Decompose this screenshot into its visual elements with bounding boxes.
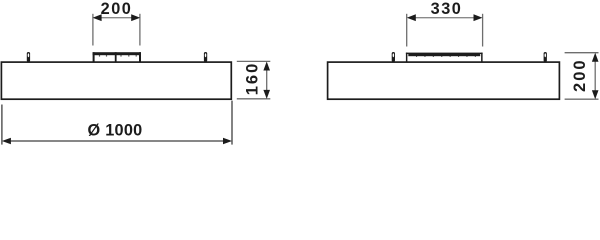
svg-text:160: 160	[244, 62, 262, 96]
svg-text:200: 200	[101, 0, 133, 18]
svg-text:330: 330	[431, 0, 463, 18]
svg-text:Ø 1000: Ø 1000	[88, 122, 143, 140]
svg-text:200: 200	[571, 58, 589, 92]
